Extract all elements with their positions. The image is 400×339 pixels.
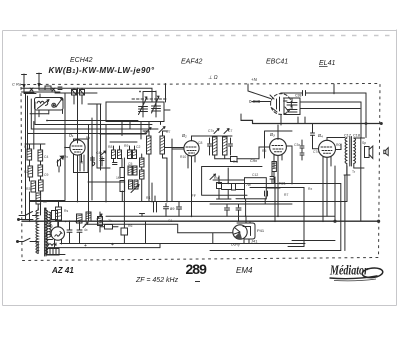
svg-text:R6: R6 [128,224,132,228]
svg-text:ZF = 452 kHz: ZF = 452 kHz [135,277,179,284]
svg-text:7k: 7k [108,219,112,223]
svg-text:289: 289 [186,261,208,277]
svg-text:J41: J41 [251,239,258,244]
svg-text:C3x: C3x [294,143,300,147]
svg-text:C9: C9 [44,173,48,177]
svg-text:Bo: Bo [86,136,90,140]
svg-text:FF: FF [192,194,197,198]
svg-text:B₂: B₂ [182,133,187,138]
svg-text:Rx: Rx [308,187,312,191]
svg-text:C18: C18 [353,134,360,138]
svg-text:R0: R0 [336,143,340,147]
svg-text:C1: C1 [168,219,172,223]
svg-text:+: + [111,242,114,248]
svg-text:P41: P41 [257,228,265,233]
svg-text:R5: R5 [262,149,266,153]
svg-text:C8: C8 [198,141,202,145]
svg-text:R7: R7 [284,193,288,197]
svg-text:R2: R2 [24,170,28,174]
svg-text:B₃: B₃ [270,132,275,137]
svg-text:C7x: C7x [208,129,214,133]
svg-text:C4: C4 [44,155,48,159]
svg-text:50: 50 [43,200,47,204]
svg-text:+N: +N [251,77,258,82]
svg-text:C6: C6 [144,130,148,134]
svg-text:Rw: Rw [233,160,238,164]
svg-text:Tr: Tr [352,170,356,174]
svg-text:R1: R1 [24,145,28,149]
svg-text:+: + [84,243,87,249]
svg-text:R10: R10 [180,155,186,159]
svg-text:C Ra: C Ra [12,82,22,87]
svg-text:C38: C38 [295,94,301,98]
svg-text:EBC41: EBC41 [266,59,288,66]
svg-text:EL41: EL41 [319,60,335,67]
svg-text:7w: 7w [246,183,251,187]
svg-text:B₁: B₁ [69,133,74,138]
svg-text:Sp: Sp [362,141,366,145]
svg-text:C7x: C7x [313,150,319,154]
svg-text:4x: 4x [84,228,88,232]
svg-text:⊥ Ω: ⊥ Ω [208,75,218,81]
svg-text:EAF42: EAF42 [181,59,203,66]
svg-text:89: 89 [170,206,175,211]
svg-text:DcRy: DcRy [231,243,240,247]
svg-text:C7: C7 [228,129,232,133]
svg-text:C5: C5 [128,162,132,166]
svg-text:KW(B1)-KW-MW-LW-je90°: KW(B1)-KW-MW-LW-je90° [49,66,155,75]
svg-text:R4: R4 [146,196,150,200]
svg-text:B₅: B₅ [48,223,53,228]
svg-text:R21: R21 [279,182,286,186]
svg-text:EM4: EM4 [236,266,253,275]
svg-text:ECH42: ECH42 [70,57,93,64]
svg-text:C12: C12 [252,173,258,177]
svg-text:C4x: C4x [96,151,102,155]
svg-text:R9: R9 [124,144,128,148]
svg-text:C7: C7 [166,130,170,134]
svg-text:R3: R3 [26,187,30,191]
svg-text:Ru: Ru [214,176,219,180]
svg-text:C2x: C2x [62,155,68,159]
svg-text:Médiator: Médiator [329,264,368,279]
svg-text:C2: C2 [136,145,140,149]
svg-text:1M: 1M [116,176,121,180]
svg-text:R8: R8 [108,145,112,149]
svg-text:Rs: Rs [64,209,68,213]
svg-text:C9x: C9x [250,158,257,163]
svg-text:Rt: Rt [80,161,84,165]
svg-text:AZ 41: AZ 41 [51,266,74,275]
svg-text:B₄: B₄ [318,133,323,138]
